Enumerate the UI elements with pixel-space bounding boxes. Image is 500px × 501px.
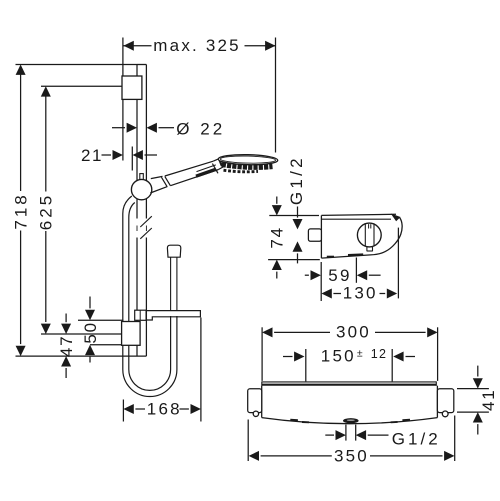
svg-text:59: 59 (328, 266, 351, 285)
svg-text:12: 12 (371, 347, 387, 361)
svg-text:130: 130 (343, 284, 378, 303)
svg-text:168: 168 (147, 400, 182, 419)
svg-text:350: 350 (334, 446, 369, 465)
svg-text:718: 718 (12, 192, 31, 229)
svg-text:50: 50 (81, 321, 100, 344)
svg-text:47: 47 (57, 335, 76, 358)
svg-text:±: ± (357, 347, 363, 359)
svg-text:G1/2: G1/2 (392, 430, 441, 449)
svg-text:Ø 22: Ø 22 (176, 120, 225, 139)
svg-text:max. 325: max. 325 (153, 36, 241, 55)
svg-text:150: 150 (321, 347, 356, 366)
svg-text:21: 21 (81, 146, 103, 165)
svg-text:300: 300 (336, 323, 371, 342)
svg-text:41: 41 (479, 388, 498, 411)
svg-text:74: 74 (267, 226, 286, 249)
svg-text:625: 625 (36, 193, 55, 230)
svg-text:G1/2: G1/2 (287, 155, 306, 205)
